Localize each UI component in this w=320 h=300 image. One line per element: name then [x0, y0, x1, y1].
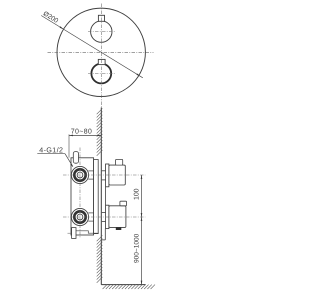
bottom outlet centerline tail: [68, 232, 72, 234]
trim plate bottom cap: [102, 239, 106, 241]
upper handle neck: [102, 170, 106, 172]
diameter dimension line: [41, 16, 143, 78]
horizontal centerline: [48, 51, 154, 53]
trim plate lower extension: [104, 229, 106, 240]
wall hatching lower: [97, 235, 103, 282]
top pipe stub: [73, 152, 78, 164]
dimension arrow lower-right: [137, 74, 141, 77]
bottom knob tab: [98, 59, 105, 64]
floor hatching: [103, 285, 155, 289]
lower knob tab: [120, 201, 127, 206]
upper handle escutcheon: [106, 164, 109, 187]
lower knob body: [109, 206, 126, 228]
bottom knob (thermostat handle, thick ring): [91, 64, 111, 84]
label Ø200: [43, 11, 59, 23]
bottom knob centerline: [88, 73, 116, 75]
top knob centerline: [88, 31, 116, 33]
upper knob tab: [116, 159, 123, 165]
wall line: [100, 108, 102, 285]
dimension arrow upper-left: [60, 26, 64, 29]
cartridge barrel lines lower: [88, 212, 93, 214]
lower knob button: [116, 227, 122, 230]
dimension 100: [141, 175, 143, 217]
dimension 900~1000: [141, 217, 143, 285]
port vertical centerline: [79, 148, 81, 239]
bottom outlet stepped line: [76, 231, 98, 233]
lower port G1/2: [71, 208, 88, 225]
upper knob body: [109, 165, 125, 185]
upper port G1/2: [71, 166, 88, 183]
vertical centerline: [100, 4, 102, 109]
lower handle neck: [102, 211, 106, 213]
upper handle centerline: [63, 174, 145, 176]
valve body box: [71, 158, 94, 235]
floor line: [101, 284, 145, 286]
lower handle escutcheon: [106, 205, 109, 228]
top knob (diverter handle): [91, 21, 112, 42]
lower handle centerline: [63, 216, 145, 218]
cartridge barrel lines upper: [88, 170, 93, 172]
wall hatching upper: [97, 108, 103, 155]
flange strip: [94, 160, 99, 234]
escutcheon plate circle: [57, 8, 145, 96]
dimension 70~80: [68, 134, 70, 157]
top knob tab: [98, 15, 104, 21]
bottom stub below body: [72, 228, 76, 239]
label 4-G1/2 leader: [39, 147, 62, 152]
trim plate edge between escutcheons: [105, 187, 107, 205]
